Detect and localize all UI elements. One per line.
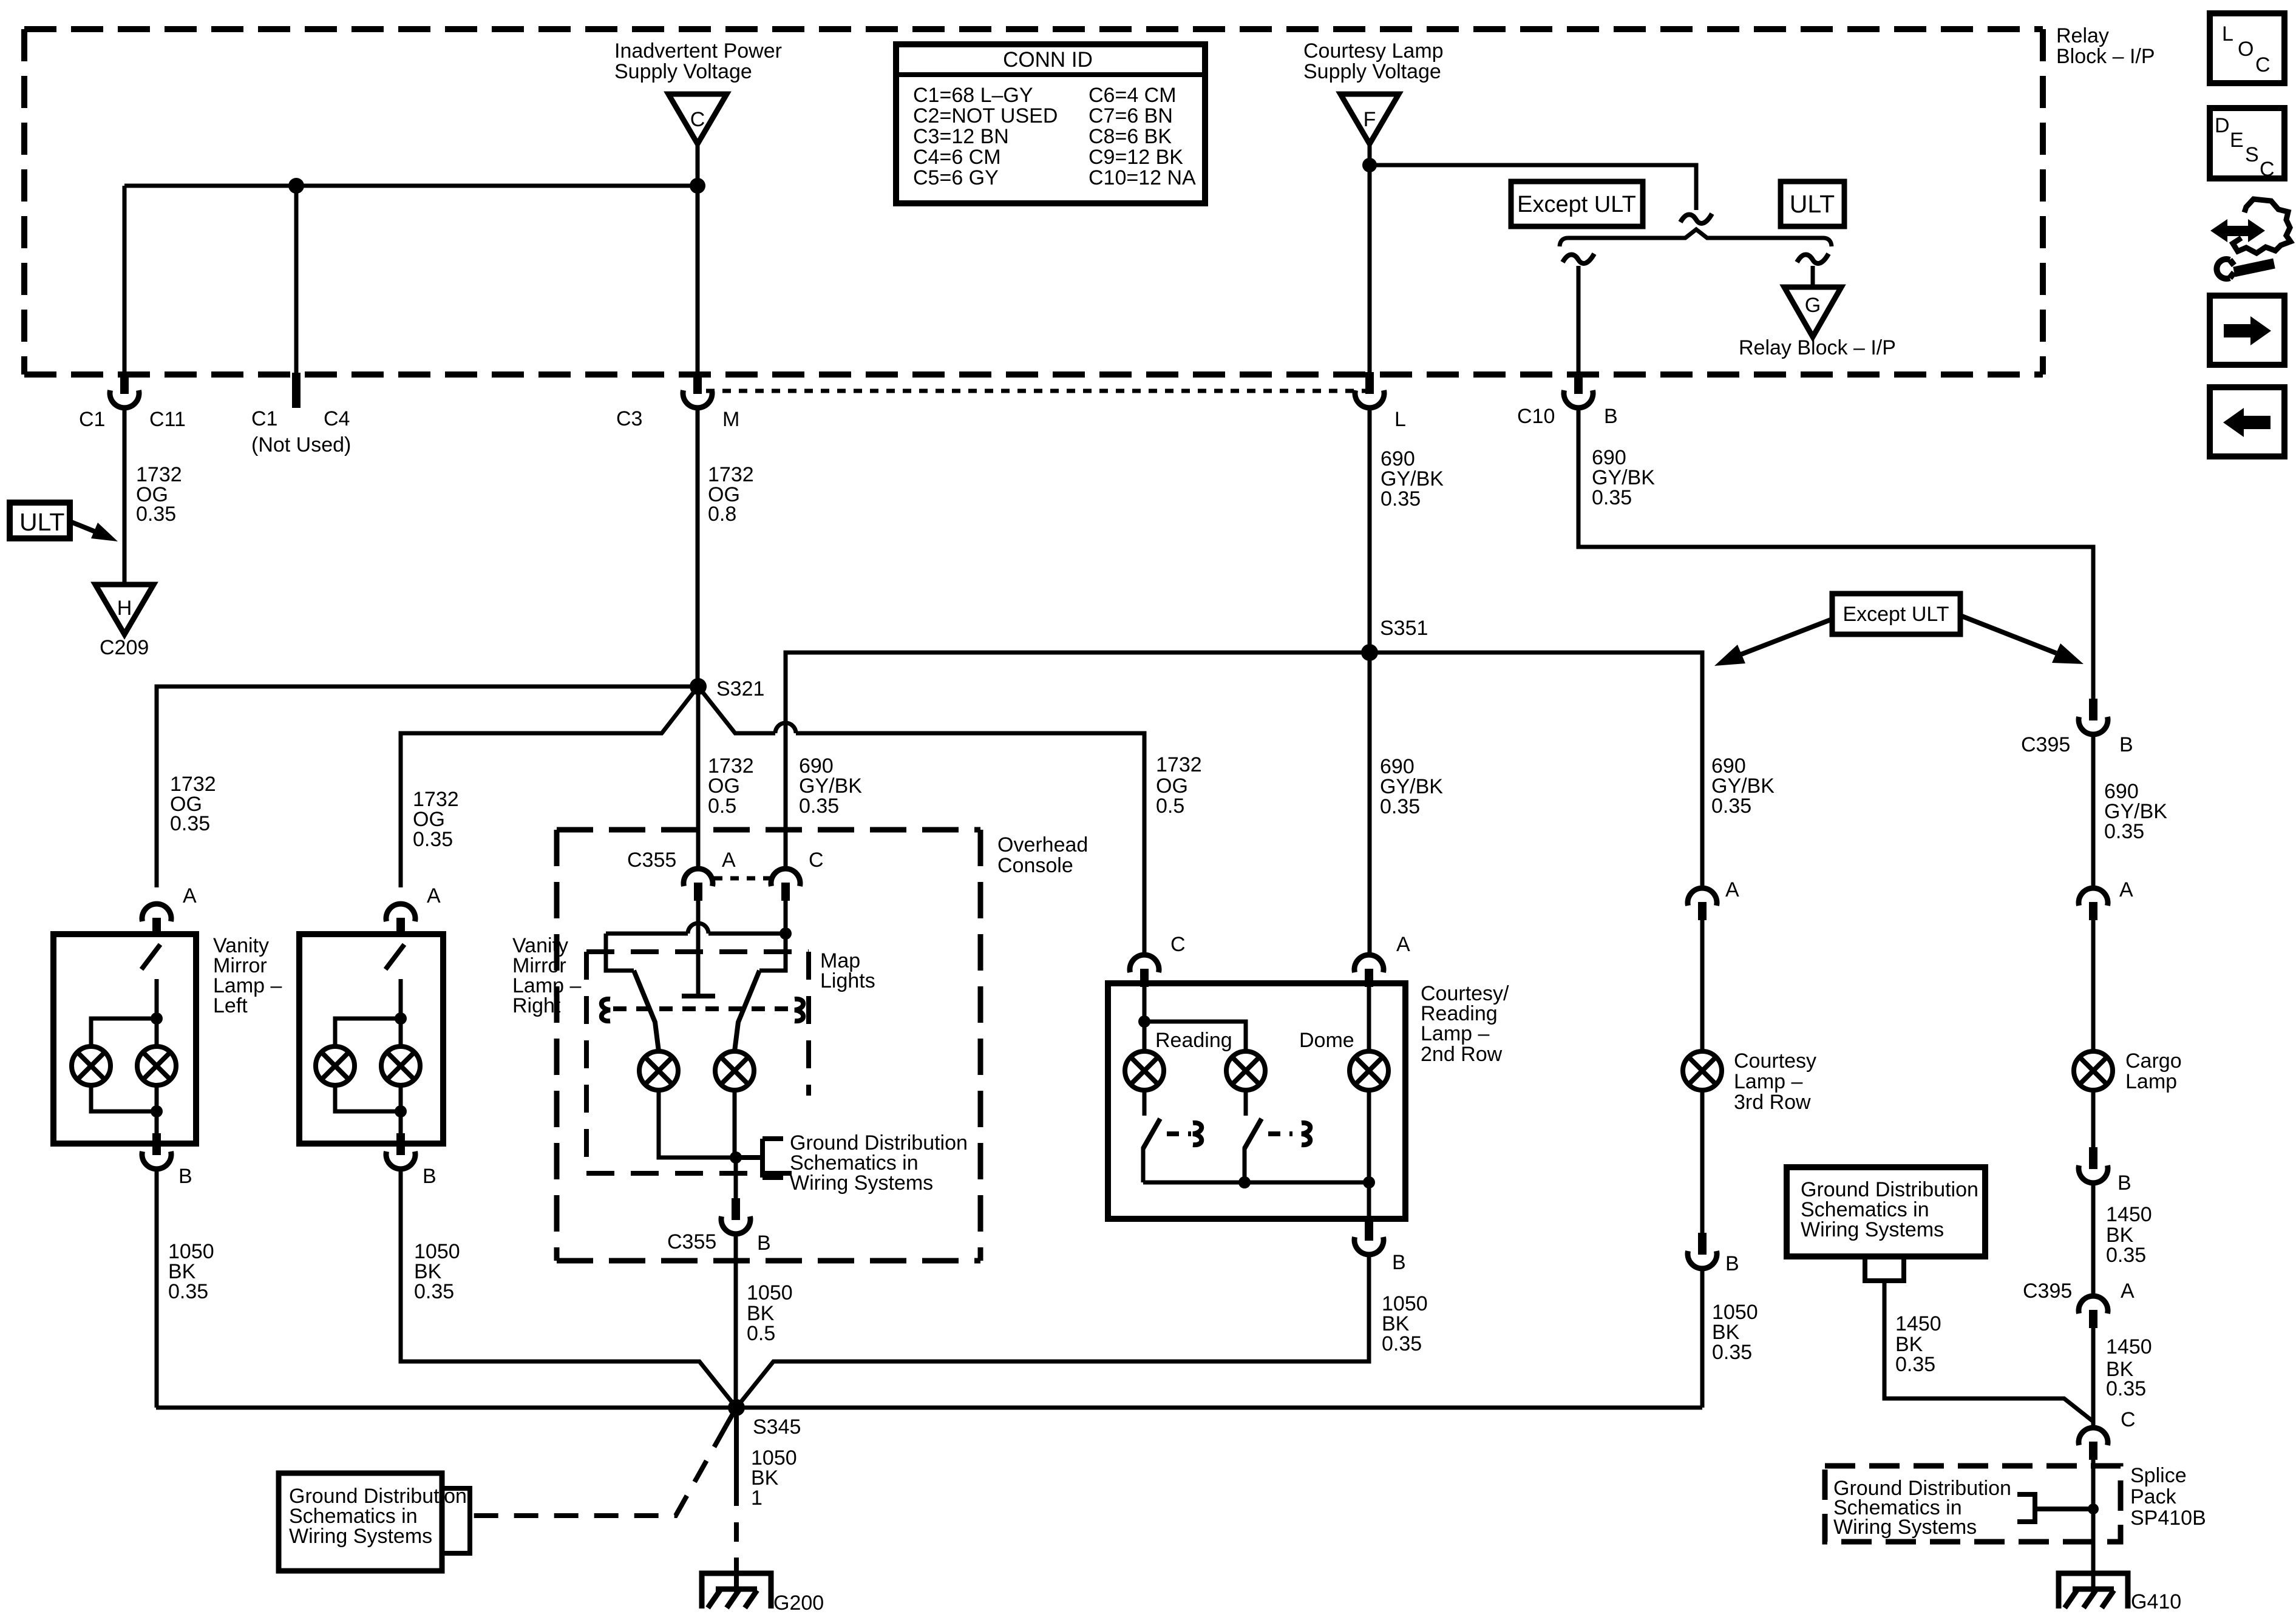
Except ULT box (relay block) [1511,181,1643,226]
ULT tag box with arrow [10,503,118,541]
wire 690 GY/BK 0.35 C395 to cargo A [2091,734,2096,887]
svg-text:0.5: 0.5 [747,1322,775,1345]
connector A (vanity left) [142,904,171,936]
connector B (2nd row lamp) [1354,1219,1384,1255]
break symbol on except-ULT branch [1563,254,1594,263]
svg-text:0.35: 0.35 [1381,487,1421,510]
svg-text:A: A [722,849,736,872]
connector B (cargo) [2079,1147,2108,1183]
wire 1050 BK 0.5 to S345 [734,1233,738,1408]
svg-text:0.35: 0.35 [1711,795,1751,818]
svg-text:Pack: Pack [2130,1485,2177,1508]
svg-text:C10=12 NA: C10=12 NA [1089,166,1196,189]
svg-text:0.5: 0.5 [1156,795,1184,818]
wire rail left drop to wiper [606,934,634,971]
splice S345 bus [156,1406,1702,1410]
label 1732 OG 0.35 (vanity left) [170,773,216,835]
service icon wrench and arrows [2210,199,2291,279]
bracket (splice pack note) [2017,1494,2093,1522]
svg-text:H: H [117,597,132,620]
overhead console dashed box [557,830,980,1261]
svg-text:A: A [1396,933,1410,956]
svg-text:Supply Voltage: Supply Voltage [1303,60,1441,83]
wire hop over dome feed [775,723,796,733]
connector B (vanity left) [142,1133,171,1169]
connector A (3rd row lamp) [1688,888,1717,920]
svg-text:0.35: 0.35 [414,1280,454,1303]
label Inadvertent Power Supply Voltage [614,39,782,83]
svg-text:Overhead: Overhead [997,833,1088,856]
svg-text:Inadvertent Power: Inadvertent Power [614,39,782,63]
svg-text:G200: G200 [773,1592,824,1615]
wire 690 GY/BK 0.35 from L to S351 [1368,407,1372,653]
lamp box [53,934,196,1144]
wire to connector C1/C11 [123,186,127,372]
svg-text:Wiring Systems: Wiring Systems [1833,1516,1977,1539]
wire A to 3rd row bulb [1700,920,1705,1051]
svg-text:C: C [2255,53,2271,76]
switch gang dashed link (map lights) [613,1006,792,1011]
svg-text:Except ULT: Except ULT [1517,192,1636,217]
wire ULT branch to triangle G [1811,266,1815,286]
label Splice Pack SP410B [2130,1464,2206,1530]
svg-text:C5=6 GY: C5=6 GY [913,166,999,189]
wire 1732 OG 0.8 from C3 to S321 [696,407,700,686]
wire from triangle F to connector L [1368,144,1372,372]
dashed connector line C355 [714,876,771,881]
switch gang dash reading 1 [1167,1131,1191,1136]
svg-text:0.35: 0.35 [2104,820,2144,843]
connector triangle H (C209) [95,585,154,634]
svg-text:C355: C355 [627,849,676,872]
svg-text:C11: C11 [149,408,186,431]
wire 1050 BK 0.35 vanity left to S345 [155,1168,159,1408]
svg-text:Lamp: Lamp [2125,1070,2177,1093]
svg-text:1: 1 [751,1486,763,1510]
svg-text:G: G [1805,294,1821,317]
svg-text:C6=4 CM: C6=4 CM [1089,84,1177,107]
wire 1050 BK 0.35 3rd row to S345 [1700,1268,1705,1408]
svg-text:F: F [1364,108,1376,131]
ground G200 [702,1573,771,1609]
wire reading bulb 2 to switch [1244,1090,1248,1116]
label 1050 BK 1 [751,1446,797,1510]
label 1732 OG 0.35 (vanity right) [413,788,459,851]
reading bulb 2 [1226,1051,1265,1090]
wire to bulbs [155,979,159,1046]
wire S321 to vanity right [401,686,698,887]
ground rail 2nd row [1143,1181,1369,1185]
svg-text:Lights: Lights [820,969,875,992]
svg-text:0.35: 0.35 [136,503,176,526]
svg-text:Right: Right [512,994,561,1017]
label Courtesy Lamp 3rd Row [1734,1049,1816,1114]
node ground junction (console) [730,1151,742,1164]
splice S321 [690,678,707,695]
svg-text:Except ULT: Except ULT [1843,603,1949,626]
connector A (vanity right) [386,904,415,936]
svg-text:B: B [2119,733,2133,756]
bulb right [137,1046,176,1085]
node junction on F wire [1362,158,1377,172]
svg-text:B: B [1392,1251,1406,1274]
wire 1450 BK 0.35 cargo to C395 A [2091,1182,2096,1295]
connector C1/C4 not used pin [292,373,301,408]
map light bulb right [715,1051,754,1090]
connector L [1355,372,1384,408]
wire 1050 BK 1 S345 to G200 [734,1408,739,1592]
voltage triangle C [668,94,727,144]
svg-text:D: D [2215,114,2230,137]
label 1732 OG 0.8 [708,463,754,526]
wire 1050 BK 0.35 2nd row to S345 [736,1254,1369,1408]
break symbol on ULT ground branch [1797,254,1829,263]
ULT box (relay block) [1781,181,1844,226]
svg-text:M: M [722,408,739,431]
wire cargo bulb to connector B [2091,1090,2096,1147]
brace over ULT split [1560,229,1832,246]
svg-text:Cargo: Cargo [2125,1049,2182,1073]
wire 1732 OG 0.35 to C209 [123,407,127,585]
svg-text:C: C [2260,158,2275,181]
label 1732 OG 0.35 (C209 wire) [136,463,182,526]
svg-text:C395: C395 [2023,1280,2072,1303]
label 690 GY/BK 0.35 (cargo) [2104,780,2167,843]
vanity mirror lamp left [53,884,197,1188]
map light feed rail with hop over A wire [606,932,786,936]
wire bulbs to output [335,1085,401,1111]
label Cargo Lamp [2125,1049,2182,1093]
svg-text:C355: C355 [667,1230,716,1253]
node junction rail dome [1363,1176,1375,1188]
label Overhead Console [997,833,1088,877]
connector C355 B (console) [721,1198,750,1234]
wire 1050 BK 0.35 vanity right to S345 [401,1168,736,1408]
label Vanity Mirror Lamp Right [512,934,581,1017]
switch wiper left (map light) [634,971,659,1051]
svg-text:C: C [690,108,705,131]
svg-text:A: A [2119,878,2133,901]
svg-text:S351: S351 [1380,617,1428,640]
splice pack SP410B dashed box [1825,1466,2121,1542]
svg-text:Lamp –: Lamp – [1734,1070,1802,1093]
bulb left [316,1046,355,1085]
svg-text:Courtesy: Courtesy [1734,1049,1816,1073]
svg-text:0.35: 0.35 [799,795,839,818]
svg-text:Wiring Systems: Wiring Systems [289,1525,432,1548]
label 1450 BK 0.35 (note wire) [1895,1312,1941,1376]
ground triangle G [1784,287,1841,337]
label Relay Block - I/P (top right) [2056,24,2155,68]
switch wiper right (map light) [735,971,759,1051]
svg-text:Console: Console [997,854,1073,877]
node junction at C3 wire [690,178,705,194]
connector C (splice pack) [2079,1428,2108,1460]
svg-text:Relay: Relay [2056,24,2109,47]
svg-text:C9=12 BK: C9=12 BK [1089,146,1183,169]
svg-text:A: A [2121,1280,2135,1303]
svg-text:C10: C10 [1517,405,1555,428]
svg-text:Left: Left [213,994,248,1017]
wire branch to reading bulb 2 [1144,1022,1246,1051]
switch blade reading 1 [1143,1119,1160,1148]
prev-page icon box [2210,387,2284,456]
gang curl right [795,999,803,1021]
Except ULT tag box with arrows [1714,594,2084,666]
svg-text:0.35: 0.35 [413,828,453,851]
reading bulb 1 [1125,1051,1164,1090]
gang curl left [602,999,610,1021]
relay block I/P dashed box [24,29,2043,375]
svg-text:ULT: ULT [1790,190,1835,218]
svg-text:B: B [757,1232,771,1255]
switch blade [141,944,160,969]
svg-text:0.35: 0.35 [2106,1244,2146,1267]
label Vanity Mirror Lamp Left [213,934,282,1017]
bracket (bottom left note) [443,1488,470,1553]
splice S351 [1361,644,1378,661]
svg-text:Relay Block – I/P: Relay Block – I/P [1739,336,1896,359]
courtesy/reading lamp 2nd row box [1108,983,1405,1219]
svg-text:C209: C209 [100,636,149,659]
label 690 GY/BK 0.35 (3rd row feed) [1711,754,1775,818]
connector B (vanity right) [386,1133,415,1169]
node junction at C1/C4 branch [288,178,304,194]
svg-text:S: S [2245,143,2259,166]
label 1732 OG 0.5 (2nd row C wire) [1156,753,1202,818]
voltage triangle F [1340,94,1399,144]
courtesy lamp 3rd row bulb [1683,1051,1722,1090]
svg-text:2nd Row: 2nd Row [1421,1043,1503,1066]
CONN ID table [896,44,1205,203]
wire A to cargo bulb [2091,920,2096,1051]
svg-text:Dome: Dome [1299,1029,1354,1052]
svg-text:0.35: 0.35 [1895,1353,1935,1376]
svg-text:C3: C3 [616,407,642,430]
ground distribution note box (bottom left) [279,1473,467,1571]
svg-text:C3=12 BN: C3=12 BN [913,125,1009,148]
wire 1450 BK 0.35 from note to splice C [1884,1281,2093,1422]
label 690 GY/BK 0.35 (L wire) [1381,447,1444,510]
svg-text:A: A [1725,878,1739,901]
wire except-ULT branch to connector C10 [1577,266,1581,373]
svg-text:1450: 1450 [2106,1203,2152,1226]
wire S321 to vanity left [157,686,698,887]
wire rail right drop to wiper [759,934,786,971]
node junction reading feed [1138,1015,1150,1028]
DESC icon box [2210,108,2284,181]
node junction splice pack [2088,1503,2099,1514]
label Ground Distribution Schematics in Wiring Systems (splice pack) [1833,1477,2011,1539]
svg-text:E: E [2230,129,2244,152]
bracket to ground distribution note [736,1139,783,1178]
svg-text:0.35: 0.35 [168,1280,208,1303]
svg-text:Supply Voltage: Supply Voltage [614,60,752,83]
svg-text:B: B [423,1165,436,1188]
wire dome bulb from A [1367,987,1371,1051]
svg-text:Wiring Systems: Wiring Systems [1801,1218,1944,1241]
node junction rail/C feed [779,927,792,940]
svg-text:G410: G410 [2131,1590,2181,1613]
svg-text:C4: C4 [324,407,350,430]
svg-text:0.8: 0.8 [708,503,736,526]
label 690 GY/BK 0.35 (console C feed) [799,754,862,818]
svg-text:Courtesy Lamp: Courtesy Lamp [1303,39,1444,63]
ground distribution note box (right) [1787,1167,1985,1256]
svg-text:Wiring Systems: Wiring Systems [790,1171,933,1195]
connector C (2nd row lamp) [1130,955,1159,987]
svg-text:(Not Used): (Not Used) [251,433,351,456]
svg-text:SP410B: SP410B [2130,1507,2206,1530]
label 690 GY/BK 0.35 (C10 wire) [1592,446,1655,509]
connector C1/C11 [110,372,139,408]
wire 1450 BK 0.35 to splice pack C [2091,1328,2096,1427]
wire A feed down to switch pole [696,901,701,996]
svg-text:C7=6 BN: C7=6 BN [1089,104,1173,127]
break symbol on ULT split wire [1680,214,1712,223]
svg-text:1450: 1450 [2106,1335,2152,1358]
label Courtesy/Reading Lamp 2nd Row [1421,982,1509,1066]
svg-text:Block – I/P: Block – I/P [2056,45,2155,68]
label 1450 BK 0.35 (to splice) [2106,1335,2152,1400]
label 1732 OG 0.5 (console A) [708,754,754,818]
next-page icon box [2210,296,2284,365]
label 1050 BK 0.5 [747,1281,793,1345]
wire S321 to 2nd row reading lamp C [698,686,1144,954]
vanity mirror lamp right [299,884,443,1188]
svg-text:C2=NOT USED: C2=NOT USED [913,104,1058,127]
wire reading bulb 1 to switch [1143,1090,1147,1116]
wire 690 GY/BK 0.35 from C10 to C395 B [1578,407,2093,699]
svg-text:S345: S345 [753,1415,801,1439]
dome bulb [1350,1051,1388,1090]
wire from triangle C to connector C3 [696,144,700,372]
connector C10/B [1564,372,1593,408]
svg-text:O: O [2238,38,2254,61]
svg-text:C1=68 L–GY: C1=68 L–GY [913,84,1033,107]
svg-text:C1: C1 [79,408,105,431]
connector A (cargo lamp) [2079,888,2108,920]
svg-text:C: C [2121,1408,2136,1431]
wire horizontal inadvertent power bus [124,184,698,188]
cargo lamp bulb [2074,1051,2113,1090]
label Ground Distribution Schematics in Wiring Systems (console) [790,1131,968,1195]
svg-text:0.35: 0.35 [1382,1332,1422,1355]
wire map bulbs to ground junction [659,1090,736,1158]
svg-text:3rd Row: 3rd Row [1734,1091,1811,1114]
wire switch 2 to ground rail [1243,1147,1247,1182]
svg-text:B: B [178,1165,192,1188]
svg-text:C: C [1170,933,1186,956]
wire S321 to overhead console C355 A [696,686,701,868]
svg-text:C8=6 BK: C8=6 BK [1089,125,1172,148]
switch blade reading 2 [1245,1119,1262,1148]
label 1050 BK 0.35 (vanity right) [414,1240,460,1303]
svg-text:A: A [427,884,441,907]
svg-text:Reading: Reading [1155,1029,1232,1052]
connector A (C395 bottom) [2079,1296,2108,1328]
map lights inner dashed box [586,952,809,1173]
svg-text:1450: 1450 [1895,1312,1941,1335]
label Courtesy Lamp Supply Voltage [1303,39,1444,83]
svg-text:0.35: 0.35 [1592,486,1632,509]
ground G410 [2059,1573,2128,1609]
svg-text:B: B [1725,1252,1739,1275]
node junction rail bulb2 [1238,1176,1251,1188]
svg-text:0.35: 0.35 [170,812,210,835]
label Map Lights [820,949,875,992]
wire bulbs to output [91,1085,157,1111]
label 1050 BK 0.35 (vanity left) [168,1240,214,1303]
connector C3/M [683,372,712,408]
svg-text:0.35: 0.35 [1712,1341,1752,1364]
switch gang dash reading 2 [1268,1131,1292,1136]
bulb right [381,1046,420,1085]
connector B (3rd row) [1688,1233,1717,1269]
svg-text:1732: 1732 [1156,753,1202,776]
dashed link S345 to ground distribution note [726,1408,736,1426]
svg-text:A: A [183,884,197,907]
label 1050 BK 0.35 (2nd row) [1382,1292,1428,1355]
svg-text:B: B [2118,1171,2131,1195]
wire dome bulb to rail and out [1367,1090,1371,1219]
map light bulb left [639,1051,678,1090]
bulb left [72,1046,110,1085]
svg-text:C4=6 CM: C4=6 CM [913,146,1001,169]
svg-text:B: B [1604,405,1618,428]
wire branch to ULT split [1370,165,1696,210]
bracket under right note box [1865,1256,1904,1281]
wire C feed to rail [784,901,788,934]
LOC icon box [2210,13,2284,83]
wire splice pack to G410 [2091,1460,2096,1592]
svg-text:CONN ID: CONN ID [1003,48,1093,72]
wire stub C1/C4 not used [294,186,299,373]
label 690 GY/BK 0.35 (below S351) [1380,755,1443,818]
wire ground junction to C355 B [734,1158,738,1198]
connector C355 C (console) [771,869,800,901]
label 1450 BK 0.35 (cargo out) [2106,1203,2152,1267]
svg-text:ULT: ULT [19,508,64,536]
switch pole contact bar [682,994,715,998]
wire S351 down to 2nd row A [1368,653,1372,954]
svg-text:C395: C395 [2021,733,2070,756]
svg-text:L: L [2222,22,2233,46]
svg-text:0.35: 0.35 [1380,795,1420,818]
svg-text:Splice: Splice [2130,1464,2187,1487]
wire C feed inside 2nd row lamp [1143,987,1147,1051]
svg-text:C1: C1 [251,407,277,430]
dotted connector line M to L [706,389,1365,393]
svg-text:0.5: 0.5 [708,795,736,818]
lamp box [299,934,443,1144]
label 1050 BK 0.35 (3rd row) [1712,1301,1758,1364]
wire switch 1 to ground rail [1141,1147,1146,1182]
wire 3rd row bulb to connector B [1700,1090,1705,1233]
svg-text:0.35: 0.35 [2106,1377,2146,1400]
wire to bulbs [399,979,403,1046]
svg-text:C: C [809,849,824,872]
connector C355 A (console) [684,869,713,901]
connector C395 B (cargo feed) [2079,699,2108,734]
splice S345 [728,1399,745,1416]
connector A (2nd row lamp) [1354,955,1384,987]
svg-text:Lamp –: Lamp – [1421,1022,1489,1045]
svg-text:1050: 1050 [747,1281,793,1304]
svg-text:L: L [1394,408,1406,431]
switch blade [385,944,404,969]
svg-text:S321: S321 [716,677,764,700]
